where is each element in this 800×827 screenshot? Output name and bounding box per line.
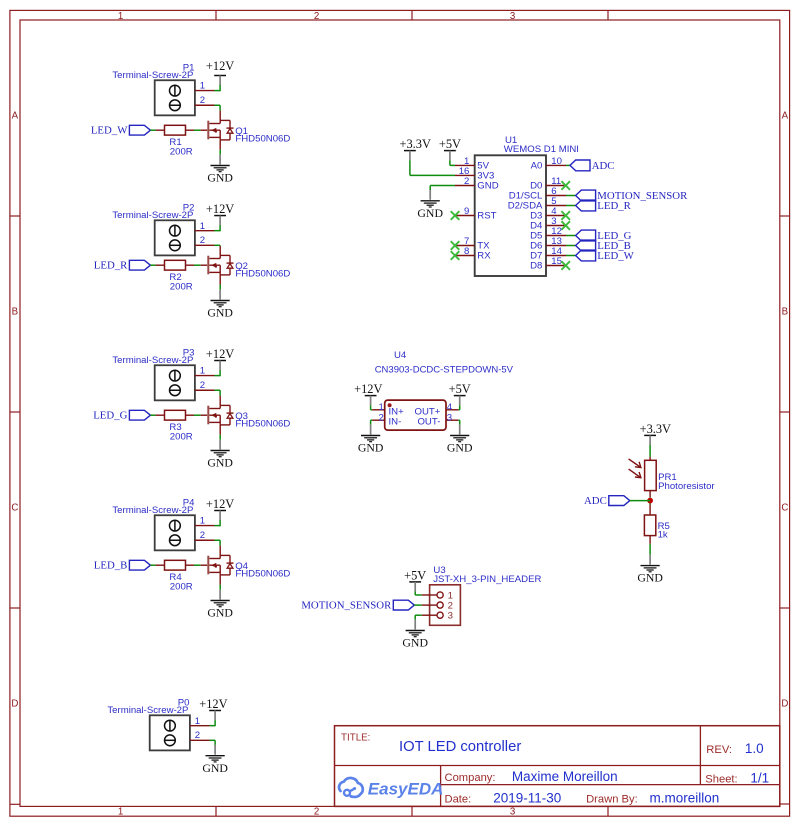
- svg-text:1.0: 1.0: [745, 741, 764, 756]
- ground U4 right: [459, 425, 461, 435]
- svg-text:GND: GND: [477, 180, 498, 191]
- ground U3: [414, 620, 416, 630]
- svg-text:D: D: [781, 699, 788, 710]
- svg-text:U4: U4: [394, 350, 407, 361]
- svg-text:3: 3: [448, 611, 453, 622]
- U1 pin 8 RX: [455, 255, 475, 257]
- svg-text:GND: GND: [417, 206, 443, 220]
- svg-text:200R: 200R: [170, 282, 193, 293]
- resistor R3 200R: [165, 410, 186, 420]
- svg-text:2: 2: [200, 95, 205, 106]
- svg-text:B: B: [12, 307, 18, 318]
- svg-text:OUT-: OUT-: [417, 417, 440, 428]
- +12V power P3: [214, 360, 226, 362]
- ground P0: [214, 745, 216, 755]
- svg-text:+3.3V: +3.3V: [640, 422, 671, 436]
- U1 pin 7 TX: [455, 245, 475, 247]
- svg-text:2: 2: [200, 380, 205, 391]
- wire U4 OUT- to ground: [458, 419, 459, 421]
- net flag LED_R: [129, 260, 150, 270]
- svg-text:FHD50N06D: FHD50N06D: [235, 419, 290, 430]
- svg-text:IOT LED controller: IOT LED controller: [399, 739, 521, 755]
- svg-text:1/1: 1/1: [750, 771, 769, 786]
- transistor Q1 FHD50N06D: [207, 121, 209, 140]
- title block: [335, 726, 780, 807]
- svg-text:1: 1: [200, 516, 205, 527]
- svg-text:JST-XH_3-PIN_HEADER: JST-XH_3-PIN_HEADER: [433, 574, 541, 585]
- U3 pin 3: [437, 612, 443, 618]
- U1 pin 4 D3: [546, 215, 566, 217]
- svg-text:Terminal-Screw-2P: Terminal-Screw-2P: [107, 705, 188, 716]
- transistor Q2 FHD50N06D: [207, 256, 209, 275]
- +12V power P2: [214, 215, 226, 217]
- +12V power P0: [209, 710, 221, 712]
- wire R4 to Q4 gate: [186, 564, 195, 566]
- U4 pin 1 IN+: [372, 409, 385, 411]
- svg-text:Terminal-Screw-2P: Terminal-Screw-2P: [112, 70, 193, 81]
- svg-text:B: B: [782, 307, 788, 318]
- net flag LED_W (U1): [566, 255, 576, 257]
- +5V power U4: [454, 395, 466, 397]
- wire pin2 to Q4 drain: [214, 539, 220, 541]
- svg-text:1: 1: [118, 11, 123, 22]
- svg-text:RST: RST: [477, 210, 496, 221]
- net flag MOTION_SENSOR (U1): [566, 195, 576, 197]
- svg-text:1: 1: [200, 366, 205, 377]
- svg-text:2: 2: [195, 730, 200, 741]
- svg-text:TITLE:: TITLE:: [341, 732, 370, 743]
- svg-text:D8: D8: [530, 260, 542, 271]
- svg-text:IN+: IN+: [389, 406, 405, 417]
- wire +5V to U3 pin1: [414, 592, 416, 596]
- wire P0 pin1 to +12V: [210, 725, 216, 727]
- svg-text:2: 2: [314, 807, 319, 818]
- +12V power P1: [214, 75, 226, 77]
- svg-text:+12V: +12V: [199, 697, 227, 711]
- wire Q4 source to GND: [219, 575, 221, 585]
- wire U4 IN- to ground: [371, 419, 373, 421]
- svg-text:GND: GND: [207, 456, 233, 470]
- svg-text:Date:: Date:: [445, 793, 472, 805]
- svg-text:+12V: +12V: [354, 382, 382, 396]
- ground U1: [429, 190, 431, 200]
- net flag LED_G (U1): [566, 235, 576, 237]
- wire P0 pin2 to GND: [210, 739, 216, 741]
- svg-text:OUT+: OUT+: [415, 406, 441, 417]
- wire +5V to U1 5V: [449, 160, 451, 165]
- photoresistor PR1: [645, 460, 657, 490]
- svg-text:LED_B: LED_B: [94, 560, 128, 572]
- svg-text:FHD50N06D: FHD50N06D: [235, 134, 290, 145]
- svg-text:3: 3: [510, 11, 515, 22]
- svg-text:200R: 200R: [170, 432, 193, 443]
- svg-text:200R: 200R: [170, 582, 193, 593]
- U4 pin 3 OUT-: [446, 419, 458, 421]
- U1 pin 14 D7: [546, 255, 566, 257]
- ground P3 block: [219, 440, 221, 450]
- svg-text:1k: 1k: [658, 530, 668, 541]
- frame ticks: [215, 10, 217, 20]
- wire LED_G to R3: [150, 414, 155, 416]
- +5V power U3: [409, 581, 421, 583]
- wire R5 to ground: [649, 536, 651, 544]
- svg-text:2019-11-30: 2019-11-30: [493, 790, 561, 805]
- svg-text:4: 4: [447, 402, 453, 413]
- wire U4 OUT+ to +5V: [458, 409, 459, 411]
- wire Q1 source to GND: [219, 140, 221, 150]
- resistor R4 200R: [165, 560, 186, 570]
- svg-text:ADC: ADC: [584, 495, 607, 507]
- U1 pin 3 D4: [546, 225, 566, 227]
- wire +3.3V to PR1: [649, 445, 651, 457]
- svg-text:1: 1: [200, 81, 205, 92]
- U1 pin 10 A0: [546, 164, 566, 166]
- ground U4 left: [370, 425, 372, 435]
- svg-text:1: 1: [379, 402, 384, 413]
- svg-text:D: D: [11, 699, 18, 710]
- ground R5: [649, 555, 651, 565]
- wire U3 pin3 to ground: [415, 614, 422, 616]
- U1 pin 15 D8: [546, 265, 566, 267]
- node ADC junction: [647, 498, 653, 504]
- wire pin2 to Q1 drain: [214, 104, 220, 106]
- svg-text:+12V: +12V: [206, 59, 234, 73]
- U4 pin 2 IN-: [372, 419, 385, 421]
- wire R3 to Q3 gate: [186, 414, 195, 416]
- connector P3 Terminal-Screw-2P: [155, 365, 195, 400]
- +5V power U1: [444, 150, 456, 152]
- svg-text:LED_R: LED_R: [94, 260, 128, 272]
- U4 pin 4 OUT+: [446, 409, 458, 411]
- IC U1 WEMOS D1 MINI body: [475, 155, 546, 276]
- U1 pin 13 D6: [546, 245, 566, 247]
- svg-text:GND: GND: [207, 171, 233, 185]
- connector P1 Terminal-Screw-2P: [155, 80, 195, 115]
- svg-text:+5V: +5V: [439, 137, 461, 151]
- net flag MOTION_SENSOR (U3): [393, 600, 414, 610]
- svg-text:15: 15: [551, 256, 562, 267]
- wire R2 to Q2 gate: [186, 264, 195, 266]
- svg-text:A0: A0: [531, 160, 543, 171]
- transistor Q3 FHD50N06D: [207, 406, 209, 425]
- svg-text:GND: GND: [402, 636, 428, 650]
- resistor R5 1k: [649, 505, 651, 516]
- U1 pin 5 D2/SDA: [546, 205, 566, 207]
- svg-text:RX: RX: [477, 250, 491, 261]
- svg-text:MOTION_SENSOR: MOTION_SENSOR: [301, 600, 392, 612]
- svg-text:2: 2: [200, 235, 205, 246]
- svg-text:+12V: +12V: [206, 497, 234, 511]
- +3.3V power U1: [404, 150, 416, 152]
- +3.3V power PR1: [644, 434, 656, 436]
- wire pin2 to Q2 drain: [214, 244, 220, 246]
- net flag LED_W: [129, 125, 150, 135]
- connector P0 Terminal-Screw-2P: [150, 715, 190, 750]
- ground P1 block: [219, 155, 221, 165]
- connector U3 JST-XH_3-PIN_HEADER body: [430, 585, 461, 626]
- U1 pin 2 GND: [455, 185, 475, 187]
- wire +12V to U4 IN+: [370, 405, 372, 410]
- svg-text:+12V: +12V: [206, 202, 234, 216]
- svg-text:+12V: +12V: [206, 347, 234, 361]
- svg-text:EasyEDA: EasyEDA: [368, 780, 444, 799]
- svg-text:Drawn By:: Drawn By:: [586, 793, 638, 805]
- svg-text:GND: GND: [358, 441, 384, 455]
- svg-text:FHD50N06D: FHD50N06D: [235, 569, 290, 580]
- svg-text:3: 3: [447, 412, 452, 423]
- svg-text:A: A: [782, 111, 789, 122]
- PR1 light arrows: [629, 459, 641, 467]
- svg-text:LED_G: LED_G: [93, 410, 127, 422]
- svg-text:Terminal-Screw-2P: Terminal-Screw-2P: [112, 355, 193, 366]
- svg-text:m.moreillon: m.moreillon: [650, 790, 720, 805]
- connector P2 Terminal-Screw-2P: [155, 220, 195, 255]
- net flag LED_B: [129, 560, 150, 570]
- svg-text:10: 10: [551, 156, 562, 167]
- svg-text:GND: GND: [202, 761, 228, 775]
- net flag LED_R (U1): [566, 205, 576, 207]
- svg-text:Photoresistor: Photoresistor: [658, 481, 715, 492]
- svg-text:C: C: [781, 503, 788, 514]
- wire ADC flag to node: [630, 500, 650, 502]
- svg-text:2: 2: [464, 176, 469, 187]
- svg-text:CN3903-DCDC-STEPDOWN-5V: CN3903-DCDC-STEPDOWN-5V: [375, 365, 514, 376]
- wire PR1 to node ADC: [649, 491, 651, 498]
- wire LED_B to R4: [150, 564, 155, 566]
- connector P4 Terminal-Screw-2P: [155, 515, 195, 550]
- resistor R1 200R: [165, 125, 186, 135]
- wire MOTION_SENSOR to U3 pin2: [414, 604, 421, 606]
- net flag LED_B (U1): [566, 245, 576, 247]
- wire pin1 to +12V: [214, 90, 220, 92]
- resistor R2 200R: [165, 260, 186, 270]
- svg-text:1: 1: [195, 716, 200, 727]
- wire R1 to Q1 gate: [186, 129, 195, 131]
- svg-text:GND: GND: [447, 441, 473, 455]
- wire pin1 to +12V: [214, 230, 220, 232]
- U1 pin 6 D1/SCL: [546, 195, 566, 197]
- svg-text:2: 2: [200, 530, 205, 541]
- svg-text:FHD50N06D: FHD50N06D: [235, 269, 290, 280]
- svg-text:200R: 200R: [170, 147, 193, 158]
- svg-text:1: 1: [200, 221, 205, 232]
- U1 pin 16 3V3: [455, 174, 475, 176]
- svg-text:A: A: [12, 111, 19, 122]
- net flag LED_G: [129, 410, 150, 420]
- svg-text:1: 1: [118, 807, 123, 818]
- svg-text:Terminal-Screw-2P: Terminal-Screw-2P: [112, 210, 193, 221]
- ground P4 block: [219, 590, 221, 600]
- U1 pin 1 5V: [455, 164, 475, 166]
- svg-text:9: 9: [464, 206, 469, 217]
- ground P2 block: [219, 290, 221, 300]
- wire +3.3V to U1 3V3: [409, 160, 411, 175]
- EasyEDA logo: [339, 778, 363, 797]
- svg-text:ADC: ADC: [592, 160, 615, 172]
- net flag ADC (U1 A0): [566, 164, 570, 166]
- +12V power U4: [365, 395, 377, 397]
- svg-text:+5V: +5V: [449, 382, 471, 396]
- wire U1 GND pin to ground: [430, 185, 455, 187]
- svg-text:GND: GND: [637, 571, 663, 585]
- svg-text:LED_W: LED_W: [91, 125, 128, 137]
- U1 pin 12 D5: [546, 235, 566, 237]
- svg-text:Terminal-Screw-2P: Terminal-Screw-2P: [112, 505, 193, 516]
- wire Q2 source to GND: [219, 275, 221, 285]
- svg-text:REV:: REV:: [706, 744, 732, 756]
- svg-text:Maxime Moreillon: Maxime Moreillon: [512, 769, 618, 784]
- svg-text:GND: GND: [207, 606, 233, 620]
- wire LED_R to R2: [150, 264, 155, 266]
- svg-text:2: 2: [379, 412, 384, 423]
- svg-text:C: C: [11, 503, 18, 514]
- net flag ADC (divider): [609, 496, 630, 506]
- +12V power P4: [214, 510, 226, 512]
- svg-text:Sheet:: Sheet:: [705, 774, 737, 786]
- svg-text:LED_R: LED_R: [597, 200, 631, 212]
- transistor Q4 FHD50N06D: [207, 556, 209, 575]
- U3 pin 1: [437, 592, 443, 598]
- U3 pin 2: [437, 602, 443, 608]
- U1 pin 9 RST: [455, 215, 475, 217]
- svg-text:Company:: Company:: [445, 772, 496, 784]
- wire LED_W to R1: [150, 129, 155, 131]
- svg-text:+5V: +5V: [404, 569, 426, 583]
- svg-text:LED_W: LED_W: [597, 250, 634, 262]
- svg-text:2: 2: [314, 11, 319, 22]
- svg-text:3: 3: [510, 807, 515, 818]
- svg-text:+3.3V: +3.3V: [399, 137, 430, 151]
- wire pin2 to Q3 drain: [214, 389, 220, 391]
- wire pin1 to +12V: [214, 525, 220, 527]
- wire Q3 source to GND: [219, 425, 221, 435]
- svg-text:GND: GND: [207, 306, 233, 320]
- wire pin1 to +12V: [214, 375, 220, 377]
- svg-text:8: 8: [464, 246, 469, 257]
- U1 pin 11 D0: [546, 185, 566, 187]
- svg-text:IN-: IN-: [389, 417, 402, 428]
- regulator U4 CN3903-DCDC-STEPDOWN-5V body: [385, 400, 446, 430]
- svg-text:WEMOS D1 MINI: WEMOS D1 MINI: [504, 144, 579, 155]
